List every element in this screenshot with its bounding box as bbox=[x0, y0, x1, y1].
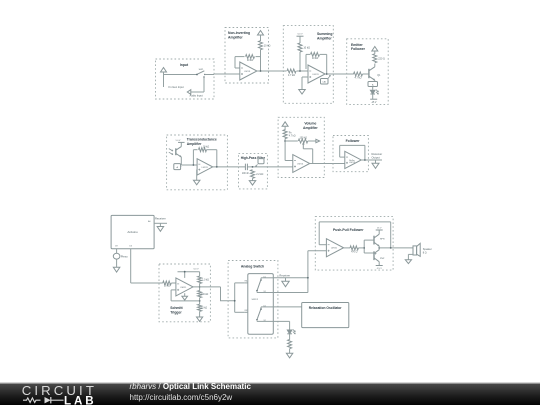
svg-text:Emitter: Emitter bbox=[351, 43, 363, 47]
svg-text:IN1: IN1 bbox=[245, 281, 248, 283]
svg-text:Non-Inverting: Non-Inverting bbox=[228, 31, 250, 35]
svg-text:10 kΩ: 10 kΩ bbox=[247, 59, 254, 62]
svg-text:100 nF: 100 nF bbox=[242, 173, 250, 175]
svg-text:Summing: Summing bbox=[317, 32, 332, 36]
svg-text:Piezo: Piezo bbox=[121, 254, 128, 258]
svg-text:Follower: Follower bbox=[351, 47, 366, 51]
svg-text:Amplifier: Amplifier bbox=[303, 126, 318, 130]
svg-text:10 kΩ: 10 kΩ bbox=[303, 47, 310, 50]
svg-text:10 kΩ: 10 kΩ bbox=[264, 44, 271, 47]
svg-text:LM741: LM741 bbox=[297, 163, 304, 165]
svg-text:4.7 kΩ: 4.7 kΩ bbox=[355, 76, 362, 79]
svg-text:Push-Pull Follower: Push-Pull Follower bbox=[333, 228, 364, 232]
svg-text:Receiver: Receiver bbox=[155, 217, 166, 221]
svg-text:4.7 kΩ: 4.7 kΩ bbox=[288, 74, 295, 77]
svg-text:S2: S2 bbox=[264, 320, 266, 322]
svg-text:10 kΩ: 10 kΩ bbox=[312, 57, 319, 60]
svg-text:Amplifier: Amplifier bbox=[187, 142, 202, 146]
svg-text:Amplifier: Amplifier bbox=[317, 36, 332, 40]
svg-text:LM311: LM311 bbox=[180, 287, 187, 289]
svg-text:SW1/2: SW1/2 bbox=[252, 299, 259, 301]
svg-text:Analog Switch: Analog Switch bbox=[241, 264, 264, 268]
svg-text:Input: Input bbox=[180, 63, 189, 67]
svg-text:LAB: LAB bbox=[64, 394, 97, 405]
svg-text:1.0 kΩ: 1.0 kΩ bbox=[202, 280, 209, 282]
svg-text:10 kΩ: 10 kΩ bbox=[201, 308, 207, 310]
svg-text:IN2: IN2 bbox=[245, 310, 248, 312]
svg-text:S1: S1 bbox=[264, 291, 266, 293]
svg-text:SW1: SW1 bbox=[199, 69, 205, 71]
svg-text:4.7 kΩ: 4.7 kΩ bbox=[289, 136, 296, 138]
svg-text:Volume: Volume bbox=[304, 121, 316, 125]
svg-text:10 kΩ: 10 kΩ bbox=[203, 146, 210, 149]
svg-text:10 kΩ: 10 kΩ bbox=[164, 286, 170, 288]
svg-text:LM741: LM741 bbox=[349, 162, 356, 164]
svg-text:Amplifier: Amplifier bbox=[228, 36, 243, 40]
svg-text:5.0 V: 5.0 V bbox=[193, 269, 199, 271]
svg-text:Fn Gen Input: Fn Gen Input bbox=[169, 85, 184, 89]
svg-text:100 kΩ: 100 kΩ bbox=[201, 294, 209, 296]
svg-text:2.2 kΩ: 2.2 kΩ bbox=[256, 173, 263, 176]
svg-text:D3: D3 bbox=[129, 246, 131, 248]
svg-text:5.0 V: 5.0 V bbox=[176, 140, 181, 142]
svg-text:LM741: LM741 bbox=[202, 167, 209, 169]
svg-text:Schmitt: Schmitt bbox=[170, 306, 183, 310]
svg-text:470 Ω: 470 Ω bbox=[351, 252, 357, 254]
svg-text:High-Pass Filter: High-Pass Filter bbox=[241, 156, 266, 160]
svg-text:NPN: NPN bbox=[380, 238, 385, 240]
svg-text:LM741: LM741 bbox=[331, 248, 338, 250]
svg-text:Trigger: Trigger bbox=[170, 310, 182, 314]
svg-text:Output: Output bbox=[372, 155, 380, 159]
svg-text:Relaxation Oscillator: Relaxation Oscillator bbox=[309, 306, 343, 310]
svg-text:Follower: Follower bbox=[346, 139, 361, 143]
svg-text:-15 V: -15 V bbox=[377, 268, 383, 270]
svg-text:-15 V: -15 V bbox=[371, 102, 377, 104]
svg-text:PNP: PNP bbox=[380, 258, 385, 260]
svg-text:Arduino: Arduino bbox=[127, 230, 138, 234]
svg-text:A0: A0 bbox=[148, 220, 150, 223]
svg-text:LM741: LM741 bbox=[244, 71, 251, 73]
svg-text:LM741: LM741 bbox=[313, 74, 320, 76]
svg-text:Receiver: Receiver bbox=[279, 274, 290, 278]
svg-text:Transconductance: Transconductance bbox=[187, 138, 217, 142]
svg-text:5.0 V: 5.0 V bbox=[297, 34, 303, 36]
svg-text:Receiver: Receiver bbox=[372, 152, 383, 156]
svg-text:15 V: 15 V bbox=[377, 228, 382, 230]
svg-text:Audio Input: Audio Input bbox=[189, 93, 202, 97]
svg-text:D1: D1 bbox=[264, 277, 266, 279]
svg-text:220 Ω: 220 Ω bbox=[378, 57, 385, 60]
svg-text:100 kΩ: 100 kΩ bbox=[300, 138, 308, 140]
svg-text:8 Ω: 8 Ω bbox=[423, 252, 427, 255]
svg-text:D9: D9 bbox=[115, 246, 117, 248]
svg-text:D2: D2 bbox=[264, 306, 266, 308]
